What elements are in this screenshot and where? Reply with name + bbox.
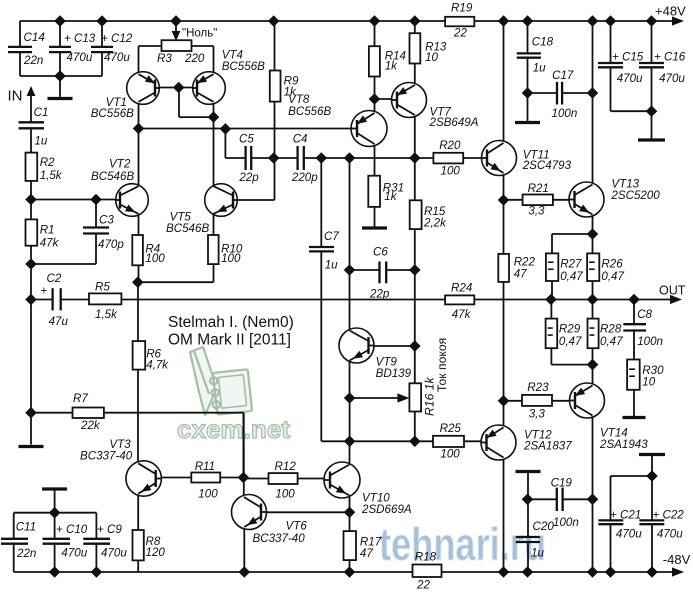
- svg-text:cxem.net: cxem.net: [177, 416, 291, 444]
- svg-text:+ C21: + C21: [610, 509, 641, 522]
- svg-text:+ C15: + C15: [612, 51, 644, 64]
- svg-text:47: 47: [360, 547, 373, 560]
- svg-text:C8: C8: [637, 308, 652, 321]
- svg-text:BD139: BD139: [376, 367, 412, 380]
- svg-text:1u: 1u: [325, 259, 338, 272]
- svg-text:1,5k: 1,5k: [40, 169, 63, 182]
- svg-text:100: 100: [275, 488, 295, 501]
- svg-text:100: 100: [440, 448, 460, 461]
- svg-text:tehnari.ru: tehnari.ru: [379, 518, 546, 570]
- svg-text:470u: 470u: [101, 547, 127, 560]
- svg-text:100n: 100n: [552, 107, 578, 120]
- svg-text:BC337-40: BC337-40: [253, 532, 306, 545]
- svg-text:470u: 470u: [104, 51, 130, 64]
- svg-text:OUT: OUT: [659, 284, 686, 298]
- svg-text:-48V: -48V: [663, 552, 691, 567]
- svg-text:1,5k: 1,5k: [95, 308, 118, 321]
- svg-text:10: 10: [642, 376, 655, 389]
- svg-text:R2: R2: [40, 156, 55, 169]
- svg-text:2SA1837: 2SA1837: [523, 440, 572, 453]
- svg-text:470u: 470u: [659, 72, 685, 85]
- svg-text:+ C12: + C12: [101, 32, 133, 45]
- svg-text:1u: 1u: [531, 547, 544, 560]
- svg-text:100: 100: [198, 488, 218, 501]
- svg-text:BC337-40: BC337-40: [80, 450, 133, 463]
- svg-text:22: 22: [453, 27, 467, 40]
- svg-text:100n: 100n: [637, 335, 663, 348]
- svg-text:4,7k: 4,7k: [146, 359, 169, 372]
- svg-text:C3: C3: [99, 214, 114, 227]
- svg-text:47k: 47k: [40, 237, 60, 250]
- svg-text:22n: 22n: [23, 54, 43, 67]
- svg-text:R1: R1: [40, 224, 55, 237]
- svg-text:47k: 47k: [452, 308, 472, 321]
- svg-text:C2: C2: [47, 272, 62, 285]
- svg-text:+ C9: + C9: [97, 523, 122, 536]
- svg-text:C19: C19: [551, 477, 573, 490]
- svg-text:2SD669A: 2SD669A: [361, 503, 412, 516]
- svg-text:Stelmah I. (Nem0): Stelmah I. (Nem0): [168, 314, 294, 331]
- svg-text:BC556B: BC556B: [288, 105, 331, 118]
- svg-text:2SC4793: 2SC4793: [522, 159, 572, 172]
- svg-text:BC556B: BC556B: [222, 60, 265, 73]
- svg-text:22p: 22p: [369, 288, 390, 301]
- svg-text:3,3: 3,3: [528, 205, 545, 218]
- svg-text:2SA1943: 2SA1943: [599, 438, 648, 451]
- svg-text:2SB649A: 2SB649A: [429, 116, 479, 129]
- svg-text:470u: 470u: [67, 51, 93, 64]
- svg-text:22: 22: [416, 579, 430, 592]
- svg-text:R24: R24: [451, 282, 473, 295]
- svg-text:C17: C17: [552, 69, 574, 82]
- svg-text:+: +: [41, 285, 48, 298]
- svg-text:0,47: 0,47: [559, 335, 582, 348]
- svg-text:100: 100: [221, 252, 241, 265]
- svg-text:470u: 470u: [617, 72, 643, 85]
- svg-text:R19: R19: [451, 2, 473, 15]
- svg-text:22p: 22p: [238, 171, 259, 184]
- svg-text:47: 47: [514, 268, 527, 281]
- svg-text:470u: 470u: [657, 528, 683, 541]
- svg-text:1k: 1k: [385, 60, 398, 73]
- svg-text:C18: C18: [532, 36, 554, 49]
- svg-text:2,2k: 2,2k: [423, 217, 447, 230]
- svg-text:C6: C6: [373, 246, 388, 259]
- svg-text:BC546B: BC546B: [166, 222, 209, 235]
- svg-text:Ток покоя: Ток покоя: [435, 338, 449, 392]
- svg-text:220p: 220p: [291, 171, 318, 184]
- svg-text:3,3: 3,3: [529, 408, 546, 421]
- svg-text:VT2: VT2: [109, 158, 131, 171]
- svg-text:OM Mark II [2011]: OM Mark II [2011]: [168, 332, 291, 349]
- svg-text:+ C10: + C10: [56, 523, 88, 536]
- svg-text:IN: IN: [8, 88, 23, 105]
- svg-text:BC546B: BC546B: [91, 170, 134, 183]
- svg-text:+48V: +48V: [655, 4, 686, 19]
- svg-text:1u: 1u: [34, 135, 47, 148]
- svg-text:22k: 22k: [80, 419, 101, 432]
- svg-text:1u: 1u: [533, 62, 546, 75]
- svg-text:100: 100: [441, 165, 461, 178]
- svg-text:R26: R26: [601, 258, 623, 271]
- svg-text:C14: C14: [24, 31, 46, 44]
- svg-text:0,47: 0,47: [560, 270, 583, 283]
- svg-text:120: 120: [146, 546, 166, 559]
- svg-text:470u: 470u: [616, 528, 642, 541]
- svg-text:R11: R11: [195, 460, 215, 473]
- svg-text:C1: C1: [34, 106, 49, 119]
- svg-text:+ C22: + C22: [653, 509, 685, 522]
- svg-text:470u: 470u: [61, 547, 87, 560]
- svg-text:470p: 470p: [98, 238, 124, 251]
- svg-text:R23: R23: [527, 381, 549, 394]
- svg-text:VT6: VT6: [286, 520, 308, 533]
- svg-text:R18: R18: [415, 551, 437, 564]
- svg-text:R29: R29: [559, 323, 581, 336]
- svg-text:R7: R7: [73, 392, 88, 405]
- svg-text:100n: 100n: [553, 516, 579, 529]
- svg-text:R28: R28: [600, 323, 622, 336]
- svg-text:R27: R27: [560, 258, 582, 271]
- svg-text:R21: R21: [528, 182, 549, 195]
- svg-text:C11: C11: [16, 521, 36, 534]
- svg-text:BC556B: BC556B: [91, 107, 134, 120]
- svg-text:0,47: 0,47: [600, 335, 623, 348]
- svg-text:C5: C5: [239, 133, 254, 146]
- svg-text:R20: R20: [439, 139, 461, 152]
- svg-text:+ C16: + C16: [654, 51, 686, 64]
- svg-text:R12: R12: [275, 460, 297, 473]
- svg-text:220: 220: [184, 52, 205, 65]
- svg-text:10: 10: [425, 51, 438, 64]
- svg-text:+ C13: + C13: [64, 32, 96, 45]
- svg-text:2SC5200: 2SC5200: [610, 189, 660, 202]
- svg-text:"Ноль": "Ноль": [182, 28, 217, 40]
- svg-text:1k: 1k: [384, 190, 397, 203]
- svg-text:0,47: 0,47: [601, 270, 624, 283]
- svg-text:R5: R5: [95, 281, 110, 294]
- svg-text:C20: C20: [533, 520, 555, 533]
- svg-text:47u: 47u: [49, 315, 69, 328]
- svg-text:22n: 22n: [16, 547, 36, 560]
- svg-text:R25: R25: [440, 422, 462, 435]
- svg-text:100: 100: [145, 252, 165, 265]
- svg-text:C4: C4: [293, 133, 308, 146]
- svg-text:C7: C7: [324, 230, 339, 243]
- svg-text:R3: R3: [157, 52, 172, 65]
